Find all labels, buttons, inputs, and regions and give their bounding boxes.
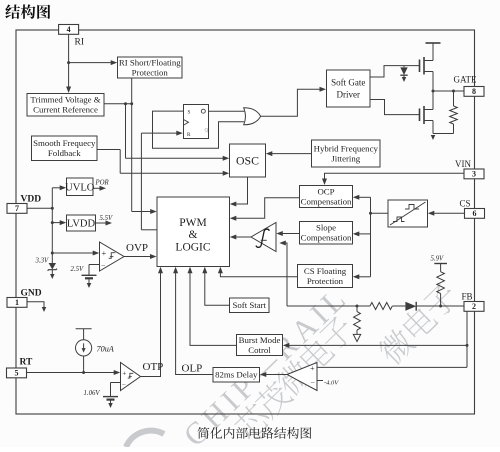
svg-text:LVDD: LVDD — [67, 219, 96, 230]
svg-text:3.3V: 3.3V — [35, 258, 49, 265]
svg-text:82ms Delay: 82ms Delay — [215, 370, 258, 380]
svg-text:OCP: OCP — [317, 186, 334, 196]
svg-text:5: 5 — [15, 369, 19, 378]
svg-text:POR: POR — [95, 180, 110, 187]
svg-text:Hybrid Frequency: Hybrid Frequency — [314, 143, 379, 153]
svg-text:Soft Start: Soft Start — [233, 300, 267, 310]
svg-text:Q: Q — [205, 128, 209, 134]
svg-text:70uA: 70uA — [97, 344, 115, 353]
svg-text:6: 6 — [473, 209, 477, 218]
svg-text:3: 3 — [472, 170, 476, 179]
svg-text:R: R — [187, 132, 191, 138]
svg-text:LOGIC: LOGIC — [175, 242, 210, 254]
svg-text:VDD: VDD — [21, 195, 42, 205]
svg-text:FB: FB — [462, 292, 473, 302]
svg-text:–: – — [310, 378, 315, 386]
svg-text:RI Short/Floating: RI Short/Floating — [119, 57, 181, 67]
svg-text:–: – — [101, 262, 106, 270]
svg-text:Cotrol: Cotrol — [248, 345, 271, 355]
svg-text:Trimmed Voltage &: Trimmed Voltage & — [30, 95, 100, 105]
svg-text:–: – — [121, 381, 126, 388]
svg-text:Smooth Frequecy: Smooth Frequecy — [33, 138, 96, 148]
svg-text:5.9V: 5.9V — [431, 255, 444, 262]
svg-text:8: 8 — [472, 87, 476, 96]
svg-text:7: 7 — [15, 204, 19, 213]
svg-text:OLP: OLP — [182, 363, 203, 375]
svg-text:2: 2 — [472, 302, 476, 311]
svg-text:Current Reference: Current Reference — [33, 105, 98, 115]
svg-text:2.5V: 2.5V — [71, 266, 84, 273]
svg-text:Slope: Slope — [316, 223, 336, 233]
svg-text:Driver: Driver — [337, 90, 361, 100]
svg-text:Jittering: Jittering — [331, 153, 360, 163]
svg-text:+: + — [122, 369, 126, 378]
svg-text:1.06V: 1.06V — [84, 390, 101, 397]
svg-text:S: S — [188, 109, 191, 115]
svg-text:-4.0V: -4.0V — [324, 379, 339, 386]
svg-text:VIN: VIN — [455, 159, 471, 169]
svg-text:+: + — [102, 248, 107, 258]
svg-text:Protection: Protection — [132, 67, 169, 77]
svg-text:UVLO: UVLO — [65, 182, 95, 193]
svg-text:RT: RT — [20, 358, 34, 368]
svg-text:&: & — [189, 229, 198, 241]
svg-text:OTP: OTP — [143, 361, 164, 373]
svg-text:OVP: OVP — [126, 242, 148, 254]
svg-text:CS: CS — [460, 199, 471, 209]
svg-text:Protection: Protection — [307, 276, 344, 286]
svg-text:CS Floating: CS Floating — [304, 266, 347, 276]
svg-text:Compensation: Compensation — [301, 233, 352, 243]
svg-text:+: + — [310, 364, 315, 373]
svg-text:1: 1 — [15, 298, 19, 307]
svg-text:Compensation: Compensation — [301, 196, 352, 206]
svg-text:PWM: PWM — [179, 217, 206, 229]
svg-text:Foldback: Foldback — [48, 148, 81, 158]
svg-text:RI: RI — [75, 38, 85, 48]
svg-text:OSC: OSC — [236, 154, 259, 168]
svg-text:Burst Mode: Burst Mode — [239, 335, 281, 345]
svg-text:GND: GND — [21, 289, 42, 299]
svg-text:5.5V: 5.5V — [100, 215, 113, 222]
svg-text:Soft Gate: Soft Gate — [331, 78, 365, 88]
svg-text:4: 4 — [67, 25, 71, 34]
svg-text:GATE: GATE — [454, 75, 477, 85]
